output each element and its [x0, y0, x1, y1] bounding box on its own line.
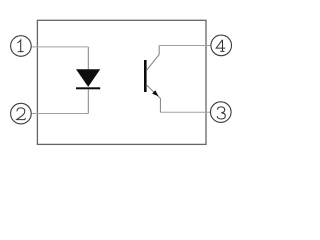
- wire pin1 to anode: [31, 46, 88, 48]
- wire cathode vertical: [87, 89, 89, 113]
- wire collector vertical: [158, 46, 160, 55]
- optocoupler body outline U1: [37, 20, 206, 144]
- wire anode vertical: [87, 47, 89, 70]
- pin 1 circle: [11, 36, 32, 57]
- wire pin4 horizontal: [159, 45, 210, 47]
- pin 2 label: [17, 108, 26, 120]
- phototransistor Q1 base bar: [144, 60, 147, 92]
- wire collector diagonal: [146, 54, 159, 70]
- wire pin3 horizontal: [160, 111, 210, 113]
- pin 3 circle: [211, 102, 232, 123]
- pin 3 label: [217, 107, 225, 119]
- emitter arrow: [152, 90, 159, 96]
- pin 4 circle: [211, 35, 232, 56]
- pin 4 label: [216, 40, 225, 52]
- wire emitter vertical: [159, 98, 161, 112]
- pin 2 circle: [11, 103, 32, 124]
- LED D1 cathode bar: [76, 87, 100, 89]
- pin 1 label: [18, 40, 24, 52]
- wire emitter diagonal: [146, 85, 160, 99]
- wire pin2 to cathode: [31, 113, 88, 115]
- LED D1 anode triangle: [76, 69, 100, 87]
